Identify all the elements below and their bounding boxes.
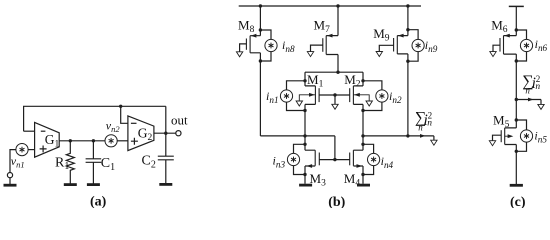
transistor M7 [311,34,339,55]
label sum in2 (c) [522,73,540,96]
supply T bar [509,5,524,7]
wire vn1 to G1 plus input [28,149,34,151]
node rail M8 [259,4,262,7]
bulk arrow M2 [366,101,372,106]
svg-text:M2: M2 [344,72,361,90]
transistor M5 [493,128,517,145]
noise source vn1 [16,144,28,156]
wire tail to M2 source [362,72,364,86]
node in5 top [515,118,518,121]
svg-text:vn2: vn2 [106,119,121,135]
current arrow sum (b) [420,134,426,138]
svg-text:(a): (a) [90,195,107,209]
wire M7 drain to tail [337,55,339,73]
wire output bend down [433,136,435,140]
node in3 top [303,143,306,146]
noise source in2 [376,90,388,102]
svg-text:out: out [171,113,188,128]
wire in4 bottom loop [363,166,374,175]
wire in9 loop [408,30,418,62]
wire in8 loop [260,30,271,61]
node in6 top [515,28,518,31]
wire M6 drain down to sum node [515,54,517,128]
node M9 drain output [406,134,409,137]
svg-text:M5: M5 [493,113,510,131]
wire in1 top loop [287,81,306,90]
svg-text:in6: in6 [535,37,548,53]
wire vn1 left to input terminal [10,150,16,173]
svg-text:n: n [535,82,540,92]
gate input arrow M8 [236,52,242,57]
node rail M9 [406,4,409,7]
wire M9 drain down to output [407,54,409,136]
gate input arrow M7 [307,52,313,57]
wire tail line [305,71,363,73]
wire in6 loop [516,30,526,61]
input terminal (open circle) [7,173,12,178]
noise source in8 [265,39,277,51]
transistor M2 [335,86,369,105]
svg-text:in8: in8 [282,38,295,54]
ground (under vn1) [4,184,17,186]
node R1 top [69,139,72,142]
svg-text:M9: M9 [373,26,390,44]
node rail M7 [336,4,339,7]
ground (under M3) [299,184,312,186]
svg-text:in1: in1 [266,89,279,105]
svg-text:in9: in9 [425,38,438,54]
svg-text:C2: C2 [142,154,156,171]
bottom T bar [510,184,523,187]
svg-text:G1: G1 [45,132,60,150]
node output [164,132,167,135]
node M9 drain / in9 bottom [406,60,409,63]
capacitor C1 [86,141,102,184]
node mirror gate [333,158,336,161]
svg-text:in4: in4 [381,154,394,170]
G1 minus sign [41,130,46,132]
wire terminal to ground [9,178,11,185]
node in1 top [303,79,306,82]
node M9 source / in9 top [406,28,409,31]
node in5 bottom [515,150,518,153]
node in6 bottom [515,59,518,62]
svg-text:n: n [525,85,530,95]
wire in2 bottom loop [363,102,382,110]
svg-text:n: n [418,123,423,133]
capacitor C2 [158,133,174,183]
wire tail to M1 source [304,72,306,86]
wire feedback down to output [165,106,167,133]
wire M8 drain down to node A [259,53,261,136]
node sum arrow (c) [515,98,518,101]
open arrow sum (c) [538,104,544,109]
svg-text:M1: M1 [307,72,324,90]
transistor M4 [350,150,363,184]
ground (under C2) [159,183,172,185]
node C1 top [92,139,95,142]
wire M5 source down [515,145,517,185]
svg-text:(c): (c) [510,195,526,208]
svg-text:G2: G2 [138,125,153,143]
node in4 top [361,143,364,146]
svg-text:C1: C1 [101,156,115,173]
noise source in5 [520,130,532,142]
svg-text:in3: in3 [273,153,286,169]
wire G1 output [59,140,105,142]
wire in2 top loop [363,81,382,90]
ground (under M4) [357,184,370,186]
out terminal (open circle) [176,131,181,136]
wire in3 bottom loop [294,166,306,175]
transistor M3 [305,150,319,184]
svg-text:M8: M8 [238,18,255,35]
wire M1 drain down [304,104,306,150]
G1 plus sign [40,146,47,153]
noise source in9 [412,39,424,51]
transistor M8 [240,34,261,53]
wire M2 drain down [362,104,364,150]
wire VDD rail [239,5,421,7]
wire in3 top loop [294,144,306,153]
node gate common M1 M2 [333,93,336,96]
wire M3 M4 gate line [319,159,349,161]
node M8 source / in8 top [259,28,262,31]
wire in1 bottom loop [287,102,306,110]
wire G2 minus to feedback [121,106,128,123]
noise source in1 [280,90,292,102]
noise source in6 [520,39,532,51]
gate input arrow M9 [376,52,382,57]
svg-text:in5: in5 [534,128,547,144]
current arrow sum (c) [516,99,541,101]
svg-text:M7: M7 [314,18,331,35]
node in2 bottom [361,109,364,112]
svg-text:R1: R1 [55,155,69,172]
node output right branch [361,134,364,137]
node A junction [303,134,306,137]
node in2 top [361,79,364,82]
node M8 drain / in8 bottom [259,59,262,62]
svg-text:n: n [427,118,432,128]
open arrow output (b) [431,140,437,145]
node in4 bottom [361,173,364,176]
wire in4 top loop [363,144,374,153]
node in1 bottom [303,109,306,112]
noise source vn2 [105,135,117,147]
wire common gate input [334,95,336,104]
wire G2 output [154,132,176,134]
ground (under R1) [64,184,77,186]
wire feedback top from G1 minus to output node [24,106,166,131]
noise source in4 [368,153,380,165]
node tail M7 [336,71,339,74]
wire node A horizontal to mirror gates [260,135,335,137]
wire rail to M8 source [259,6,261,36]
svg-text:M6: M6 [491,18,508,35]
bulk arrow M1 [296,101,302,106]
label sum in2 (b) [415,109,432,132]
wire rail to M9 source [407,6,409,36]
wire sum bend down [540,100,542,105]
wire in5 loop [516,120,526,151]
svg-text:(b): (b) [328,195,345,208]
G2 minus sign [131,122,137,124]
wire rail to M7 source [337,6,339,36]
ground (under C1) [87,184,100,186]
wire vn2 to G2 plus input [117,140,128,142]
gate input arrow M5 [489,141,495,146]
noise source in3 [287,153,299,165]
wire G1 minus input [24,130,35,132]
node G2 minus on feedback wire [119,105,122,108]
gate input arrow M6 [490,52,496,57]
node in3 bottom [303,173,306,176]
input arrow M1 M2 gates [332,104,338,109]
resistor R1 [66,141,74,184]
wire supply to M6 source [515,6,517,35]
transistor M9 [379,34,408,54]
svg-text:in2: in2 [389,89,402,105]
op-amp G2 [128,116,154,151]
wire output node horizontal [363,135,434,137]
transistor M6 [493,34,516,54]
op-amp G1 [35,122,60,157]
G2 plus sign [131,138,138,145]
wire mirror gate drop [334,136,336,160]
transistor M1 [299,86,335,105]
